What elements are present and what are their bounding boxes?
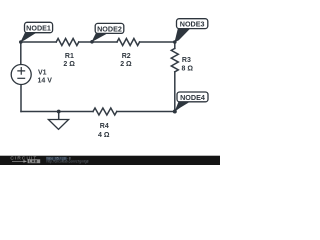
svg-text:R1: R1 — [65, 53, 74, 60]
node NODE3 flag — [173, 19, 208, 44]
svg-text:NODE4: NODE4 — [180, 93, 205, 102]
ground stem — [58, 112, 60, 120]
watermark title text — [46, 157, 67, 160]
label R4 value — [98, 123, 110, 139]
svg-text:14 V: 14 V — [38, 78, 53, 85]
node NODE2 flag — [90, 23, 124, 43]
svg-text:V1: V1 — [38, 69, 47, 76]
resistor R2 — [117, 39, 140, 46]
svg-text:2 Ω: 2 Ω — [63, 61, 75, 68]
resistor R4 — [93, 108, 117, 115]
svg-text:8 Ω: 8 Ω — [182, 66, 194, 73]
watermark bar — [0, 156, 220, 165]
wire R2 to NODE3 corner — [140, 41, 175, 43]
wire bottom-left segment (corner to R4) — [21, 111, 93, 113]
node NODE4 flag — [173, 92, 208, 114]
junction ground node — [57, 110, 61, 114]
svg-text:2 Ω: 2 Ω — [120, 61, 132, 68]
wire R1 to NODE2 anchor — [79, 41, 92, 43]
label V1 value — [38, 69, 53, 84]
wire right vertical bottom (R3 to NODE4 corner) — [174, 72, 176, 112]
wire NODE2 anchor to R2 — [92, 41, 117, 43]
voltage source V1 — [11, 65, 31, 85]
wire left vertical (corner to V1 top) — [20, 42, 22, 65]
CircuitLab logo — [10, 156, 40, 164]
svg-text:NODE1: NODE1 — [26, 23, 51, 32]
svg-text:NODE3: NODE3 — [180, 20, 205, 29]
label R2 value — [120, 53, 132, 68]
node NODE1 flag — [19, 22, 53, 44]
svg-text:http://circuitlab.com/c7gmtg8: http://circuitlab.com/c7gmtg8 — [47, 159, 89, 163]
resistor R1 — [56, 39, 79, 46]
svg-text:NODE2: NODE2 — [97, 24, 122, 33]
ground — [48, 120, 68, 130]
svg-text:R4: R4 — [100, 123, 109, 130]
label R1 value — [63, 53, 75, 68]
svg-text:R3: R3 — [182, 57, 191, 64]
svg-text:4 Ω: 4 Ω — [98, 132, 110, 139]
label R3 value — [182, 57, 194, 72]
wire R4 to NODE4 corner — [117, 111, 175, 113]
wire left vertical (V1 bottom to corner) — [20, 85, 22, 112]
wire top-left segment (NODE1 corner to R1) — [21, 41, 56, 43]
svg-text:LAB: LAB — [29, 160, 38, 164]
resistor R3 — [171, 48, 178, 71]
wire right vertical top (corner to R3) — [174, 42, 176, 48]
svg-text:R2: R2 — [122, 53, 131, 60]
